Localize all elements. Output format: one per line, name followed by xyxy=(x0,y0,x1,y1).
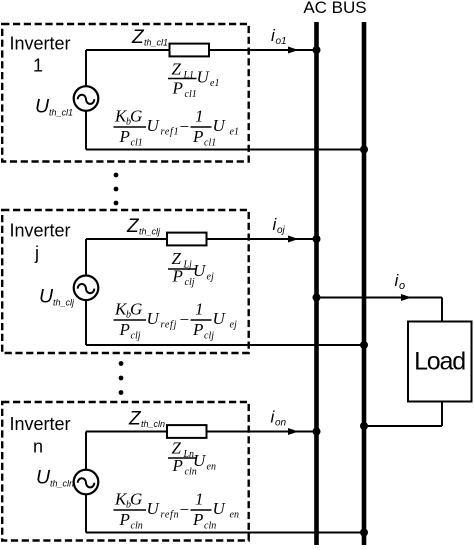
resistor Z_th_clj (Thevenin impedance) xyxy=(167,233,207,246)
svg-text:ref1: ref1 xyxy=(161,127,180,138)
svg-text:Z: Z xyxy=(131,27,145,48)
svg-text:cl1: cl1 xyxy=(185,89,197,100)
svg-text:P: P xyxy=(192,127,203,146)
load box xyxy=(408,322,472,402)
inverter j dashed enclosure xyxy=(2,210,249,353)
svg-text:en: en xyxy=(207,462,216,473)
svg-text:oj: oj xyxy=(277,225,286,236)
svg-text:cln: cln xyxy=(204,521,216,532)
svg-text:Z: Z xyxy=(172,439,182,458)
node: inverter n output junction on left bus xyxy=(313,428,321,436)
inverter 1 dashed enclosure xyxy=(2,24,249,162)
value label Z_Lj/P_clj U_ej xyxy=(168,249,214,288)
svg-text:th_cl1: th_cl1 xyxy=(49,108,73,118)
svg-text:1: 1 xyxy=(33,56,43,76)
node: inverter 1 output junction on left bus xyxy=(313,46,321,54)
svg-text:Z: Z xyxy=(128,409,142,430)
svg-text:Z: Z xyxy=(172,60,182,79)
svg-text:P: P xyxy=(172,267,183,286)
value label K_bG/P_clj U_refj - 1/P_clj U_ej xyxy=(114,300,237,342)
svg-text:Z: Z xyxy=(126,216,140,237)
svg-text:G: G xyxy=(130,300,142,319)
left AC bus bar xyxy=(314,22,319,545)
svg-text:ej: ej xyxy=(207,272,214,283)
wire: inverter 1 bottom return to right bus xyxy=(86,149,364,151)
wire: load return to right bus xyxy=(364,425,442,427)
wire: inverter 1 left vertical branch xyxy=(85,50,87,150)
svg-text:P: P xyxy=(192,510,203,529)
svg-text:L1: L1 xyxy=(183,70,195,81)
wire: inverter j top output to left bus xyxy=(86,238,317,240)
value label K_bG/P_cl1 U_ref1 - 1/P_cl1 U_e1 xyxy=(114,107,239,149)
svg-text:o: o xyxy=(399,280,405,292)
current arrow i_on xyxy=(288,428,299,435)
svg-text:−: − xyxy=(179,117,190,136)
svg-text:o1: o1 xyxy=(276,36,287,47)
value label Z_Ln/P_cln U_en xyxy=(168,439,216,478)
resistor Z_th_cl1 (Thevenin impedance) xyxy=(170,44,210,57)
svg-text:U: U xyxy=(213,309,227,328)
svg-text:U: U xyxy=(213,499,227,518)
wire: inverter n bottom return to right bus xyxy=(86,532,364,534)
svg-text:U: U xyxy=(147,499,161,518)
svg-text:refj: refj xyxy=(161,320,178,331)
AC source U_th_clj xyxy=(74,276,99,301)
wire: inverter 1 top output to left bus xyxy=(86,49,317,51)
wire: left bus to load (crosses right bus) xyxy=(317,297,443,299)
resistor Z_th_cln (Thevenin impedance) xyxy=(167,425,207,438)
svg-text:e1: e1 xyxy=(230,127,239,138)
svg-text:on: on xyxy=(275,418,287,429)
svg-text:G: G xyxy=(130,490,142,509)
svg-text:Z: Z xyxy=(172,249,182,268)
svg-text:refn: refn xyxy=(161,510,180,521)
svg-text:e1: e1 xyxy=(210,78,219,89)
svg-text:U: U xyxy=(39,286,54,308)
svg-text:U: U xyxy=(35,96,50,118)
right AC bus bar xyxy=(362,22,367,545)
svg-text:U: U xyxy=(213,116,227,135)
node: inverter 1 return junction on right bus xyxy=(360,146,368,154)
svg-text:1: 1 xyxy=(195,300,204,319)
svg-text:th_cl1: th_cl1 xyxy=(144,38,168,48)
AC source U_th_cln xyxy=(74,470,99,495)
svg-text:1: 1 xyxy=(195,107,204,126)
svg-text:Load: Load xyxy=(414,348,465,376)
svg-text:clj: clj xyxy=(131,331,141,342)
ellipsis between inverter 1 and j xyxy=(114,173,119,206)
svg-text:P: P xyxy=(119,510,130,529)
svg-text:P: P xyxy=(192,320,203,339)
svg-text:U: U xyxy=(147,309,161,328)
svg-text:P: P xyxy=(119,127,130,146)
node: inverter j return junction on right bus xyxy=(360,341,368,349)
current arrow i_o xyxy=(401,294,412,301)
svg-text:th_cln: th_cln xyxy=(141,419,165,429)
wire: inverter n top output to left bus xyxy=(86,431,317,433)
inverter n dashed enclosure xyxy=(2,402,249,541)
wire: inverter j bottom return to right bus xyxy=(86,344,364,346)
svg-text:P: P xyxy=(119,320,130,339)
svg-text:U: U xyxy=(36,467,51,489)
svg-text:Inverter: Inverter xyxy=(9,34,70,54)
svg-text:clj: clj xyxy=(204,331,214,342)
wire: load bottom down xyxy=(441,402,443,427)
svg-text:P: P xyxy=(172,79,183,98)
svg-text:cln: cln xyxy=(131,521,143,532)
svg-text:j: j xyxy=(34,243,39,263)
svg-text:U: U xyxy=(197,68,211,87)
current arrow i_oj xyxy=(288,236,299,243)
wire: down to load top xyxy=(441,298,443,322)
svg-text:−: − xyxy=(179,310,190,329)
AC source U_th_cl1 xyxy=(74,86,99,111)
ellipsis between inverter j and n xyxy=(119,361,124,395)
svg-text:n: n xyxy=(33,437,43,457)
svg-text:U: U xyxy=(147,116,161,135)
svg-text:cl1: cl1 xyxy=(204,138,216,149)
current arrow i_o1 xyxy=(288,47,299,54)
node: inverter j output junction on left bus xyxy=(313,235,321,243)
svg-text:AC BUS: AC BUS xyxy=(303,0,366,17)
svg-text:cl1: cl1 xyxy=(131,138,143,149)
svg-text:U: U xyxy=(193,261,207,280)
svg-text:th_cln: th_cln xyxy=(50,479,74,489)
svg-text:th_clj: th_clj xyxy=(53,298,75,308)
svg-text:−: − xyxy=(179,500,190,519)
wire: inverter n left vertical branch xyxy=(85,432,87,533)
svg-text:ej: ej xyxy=(230,320,237,331)
svg-text:th_clj: th_clj xyxy=(139,227,161,237)
node: load feed junction on left bus xyxy=(313,294,321,302)
value label Z_L1/P_cl1 U_e1 xyxy=(168,60,219,101)
node: inverter n return junction on right bus xyxy=(360,529,368,537)
svg-text:en: en xyxy=(230,510,239,521)
svg-text:Inverter: Inverter xyxy=(9,221,70,241)
svg-text:Inverter: Inverter xyxy=(9,414,70,434)
svg-text:G: G xyxy=(130,107,142,126)
svg-text:1: 1 xyxy=(195,490,204,509)
wire: inverter j left vertical branch xyxy=(85,239,87,345)
svg-text:U: U xyxy=(193,451,207,470)
svg-text:P: P xyxy=(172,456,183,475)
value label K_bG/P_cln U_refn - 1/P_cln U_en xyxy=(114,490,239,532)
node: load return junction on right bus xyxy=(360,422,368,430)
